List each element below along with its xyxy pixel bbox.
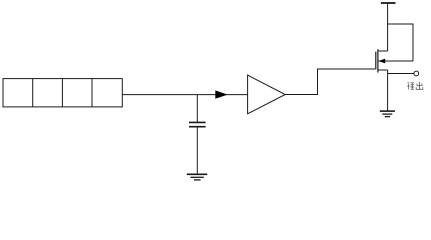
wire: capacitor top lead — [196, 95, 198, 122]
wire: buffer output to gate — [285, 69, 375, 95]
transistor Q1 (MOSFET) — [376, 49, 413, 72]
wire: source to ground — [387, 70, 389, 111]
drain stub — [378, 50, 388, 52]
source stub — [378, 69, 388, 71]
wire: drain to VDD rail — [387, 3, 389, 51]
wire: source to output terminal — [388, 73, 414, 75]
char 出 — [416, 82, 423, 90]
signal flow arrow — [215, 90, 227, 98]
ground (below capacitor) — [187, 174, 208, 180]
VDD rail — [381, 2, 396, 4]
wire: box output to buffer input — [122, 94, 247, 96]
capacitor C1 — [189, 122, 206, 126]
label 输出 (output) — [407, 82, 423, 90]
wire: feedback loop drain to body — [388, 24, 413, 61]
gate bar — [375, 52, 377, 70]
output terminal — [414, 71, 419, 76]
delay line box U1 (4-cell register) — [3, 79, 122, 107]
ground (below transistor source) — [380, 111, 395, 117]
op-amp buffer A1 — [248, 75, 286, 114]
body line with arrow — [378, 60, 413, 62]
wire: capacitor bottom lead — [196, 127, 198, 174]
char 输 — [407, 82, 414, 89]
channel bar — [377, 49, 379, 72]
